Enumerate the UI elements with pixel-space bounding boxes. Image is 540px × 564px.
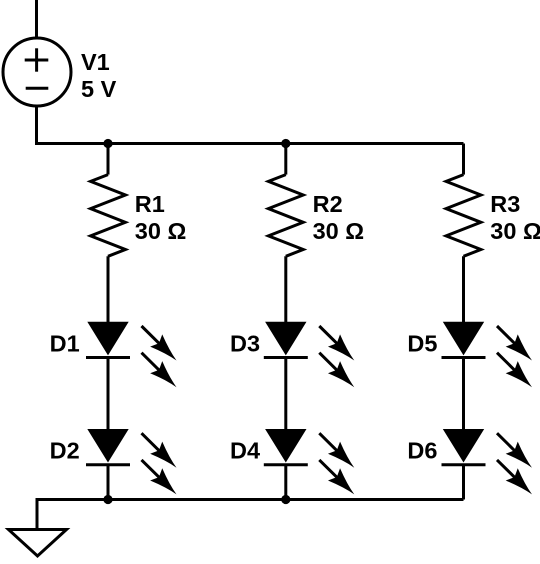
LED light arrow b of D4	[319, 460, 360, 501]
svg-text:V1: V1	[81, 49, 110, 75]
resistor R3	[446, 175, 481, 257]
label R2 30 ohm	[313, 191, 365, 244]
LED light arrow a of D2	[142, 433, 183, 474]
ground symbol	[9, 530, 67, 557]
wire V1 bottom lead	[35, 105, 38, 144]
svg-text:30 Ω: 30 Ω	[313, 218, 365, 244]
label R3 30 ohm	[490, 191, 540, 244]
svg-text:30 Ω: 30 Ω	[490, 218, 540, 244]
wire R2 top stub	[284, 144, 287, 175]
wire D2 to bottom rail	[107, 465, 110, 500]
svg-text:D4: D4	[230, 437, 260, 463]
LED D6	[442, 430, 486, 465]
LED D1	[86, 322, 130, 357]
LED light arrow a of D6	[497, 433, 538, 474]
LED light arrow a of D5	[497, 326, 538, 367]
resistor R2	[268, 175, 303, 257]
wire top supply rail	[37, 142, 464, 144]
LED light arrow b of D5	[497, 353, 538, 394]
svg-text:R3: R3	[490, 191, 520, 217]
LED light arrow a of D4	[319, 433, 360, 474]
wire bottom return rail	[37, 500, 464, 530]
svg-text:R2: R2	[313, 191, 343, 217]
svg-text:D1: D1	[50, 330, 80, 356]
wire D6 to bottom rail	[462, 465, 465, 500]
svg-text:30 Ω: 30 Ω	[135, 218, 187, 244]
wire R2 to D3	[284, 256, 287, 324]
svg-text:D5: D5	[407, 330, 437, 356]
wire top lead of V1	[35, 0, 38, 38]
wire R1 to D1	[107, 256, 110, 324]
wire R1 top stub	[107, 144, 110, 175]
LED light arrow a of D1	[142, 326, 183, 367]
wire R3 to D5	[462, 256, 465, 324]
LED light arrow b of D3	[319, 353, 360, 394]
junction dot bottom rail col1	[103, 495, 112, 504]
svg-text:R1: R1	[135, 191, 165, 217]
voltage source V1	[3, 38, 71, 106]
LED light arrow a of D3	[319, 326, 360, 367]
LED light arrow b of D6	[497, 460, 538, 501]
label R1 30 ohm	[135, 191, 187, 244]
wire D3 to D4	[284, 358, 287, 432]
LED light arrow b of D2	[142, 460, 183, 501]
LED light arrow b of D1	[142, 353, 183, 394]
svg-text:D6: D6	[407, 437, 437, 463]
LED D5	[442, 322, 486, 357]
LED D4	[264, 430, 308, 465]
resistor R1	[91, 175, 126, 257]
wire D5 to D6	[462, 358, 465, 432]
wire R3 top stub	[462, 144, 465, 175]
LED D2	[86, 430, 130, 465]
svg-text:D2: D2	[50, 437, 80, 463]
junction dot top rail col1	[103, 139, 112, 148]
junction dot bottom rail col2	[281, 495, 290, 504]
wire D4 to bottom rail	[284, 465, 287, 500]
wire D1 to D2	[107, 358, 110, 432]
svg-text:D3: D3	[230, 330, 260, 356]
junction dot top rail col2	[281, 139, 290, 148]
LED D3	[264, 322, 308, 357]
svg-text:5 V: 5 V	[81, 76, 117, 102]
